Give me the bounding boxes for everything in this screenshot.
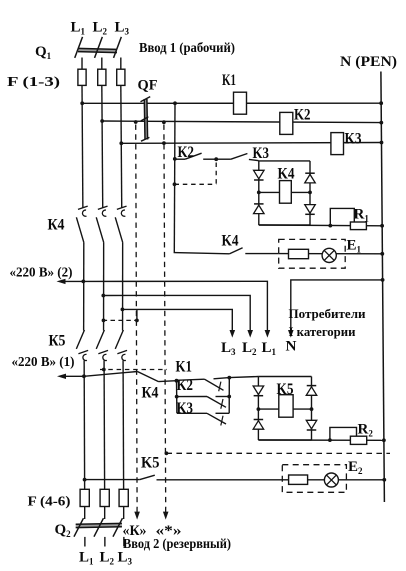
junction L1 220V1 <box>82 374 86 378</box>
svg-text:К4: К4 <box>48 217 65 234</box>
wire L1 to K5 contact <box>85 479 140 481</box>
contactor K5 pole 3 curl <box>117 350 127 353</box>
wire group left rail <box>176 381 178 414</box>
diode VD5 bridge2 left top <box>253 386 264 395</box>
svg-text:R2: R2 <box>358 422 374 439</box>
wire loop over R1 <box>330 208 354 225</box>
junction bus2 loop tap <box>328 438 332 442</box>
svg-text:L2: L2 <box>93 20 108 37</box>
wire through E2 box to N <box>282 479 384 481</box>
junction N wire1 <box>379 101 383 105</box>
wire phase 2 middle <box>103 242 105 330</box>
wire phase 1 lower <box>83 360 86 489</box>
relay coil K1 <box>234 92 247 114</box>
wire L1 feed to consumers <box>83 281 267 332</box>
arrow * <box>163 512 169 520</box>
contactor K4 pole 2 curl <box>98 206 108 209</box>
junction N feed <box>381 278 385 282</box>
wire bridge1 mid left to K4 coil <box>259 191 280 193</box>
diode VD8 bridge2 right bottom <box>306 420 317 429</box>
switch Q2 blade pole 3 <box>113 518 123 537</box>
arrow К <box>134 512 140 520</box>
junction bus2 at N <box>382 438 386 442</box>
wire bridge2 bottom <box>258 439 311 441</box>
wire bridge1 left branch <box>258 161 260 225</box>
wire bridge1 bottom <box>259 224 310 226</box>
junction L2 feed <box>101 294 105 298</box>
wire Q1 to fuse F2 <box>101 58 103 70</box>
dashed mechanical link K5 row <box>100 369 167 371</box>
wire bridge1 top <box>259 160 310 162</box>
diode VD6 bridge2 left bottom <box>254 419 264 421</box>
breaker QF bar <box>144 99 147 140</box>
contactor K5 pole 2 blade <box>96 330 104 349</box>
svg-text:K4: K4 <box>278 166 295 183</box>
contactor K5 pole 1 blade <box>76 330 84 349</box>
contactor K5 pole 1 curl <box>78 350 88 353</box>
contactor K4 pole 2 blade <box>96 217 103 242</box>
junction E2 line at N <box>382 478 386 482</box>
junction bridge1 right mid <box>308 191 312 195</box>
fuse F3 <box>117 69 125 85</box>
fuse F2 <box>98 69 106 85</box>
svg-text:Ввод 2 (резервный): Ввод 2 (резервный) <box>123 536 231 551</box>
junction N wire2 <box>379 121 383 125</box>
wire fuse F3 down <box>120 85 123 207</box>
svg-text:K1: K1 <box>222 72 236 89</box>
junction right rail top <box>227 376 231 380</box>
resistor R2 <box>350 436 366 444</box>
wire fuse F5 to Q2 <box>104 507 106 520</box>
wire N (PEN) vertical <box>381 72 385 503</box>
switch Q1 blade pole 2 <box>95 37 103 58</box>
svg-text:L2: L2 <box>100 550 115 567</box>
lamp E1 <box>322 248 336 262</box>
junction L2 wire2 <box>100 119 104 123</box>
svg-text:N (PEN): N (PEN) <box>340 54 397 70</box>
dashed mechanical link from K2-K3 node <box>215 163 217 185</box>
svg-text:L3: L3 <box>115 20 130 37</box>
svg-text:K1: K1 <box>176 359 193 376</box>
svg-text:K2: K2 <box>177 377 194 394</box>
svg-text:K2: K2 <box>178 144 195 161</box>
wire N feed to consumers <box>291 280 383 332</box>
fuse F4 <box>80 489 89 506</box>
resistor in E2 box <box>289 475 308 484</box>
contact K3 (NC) branch <box>177 412 207 414</box>
junction rail wire1 <box>173 101 177 105</box>
output «220 В» (2) arrow <box>57 279 66 284</box>
junction L1 wire1 <box>80 101 84 105</box>
wire Q2 pole 2 stub <box>104 537 106 547</box>
arrow L1 consumers <box>265 330 271 338</box>
arrow L3 consumers <box>230 330 236 338</box>
svg-text:«220 В» (1): «220 В» (1) <box>12 354 75 369</box>
svg-text:F (4-6): F (4-6) <box>28 494 71 509</box>
contactor K5 pole 3 blade <box>115 330 123 349</box>
wire 2 L2 to N with K2 coil <box>102 121 381 123</box>
junction left rail K2 branch <box>175 395 179 399</box>
diode VD4 bridge1 right bottom <box>305 205 316 214</box>
relay coil K5 <box>279 395 293 418</box>
junction stub L2 <box>102 319 106 323</box>
junction dashed link at L2 lower <box>102 368 106 372</box>
wire bus2 bridge2 to N <box>258 439 384 441</box>
svg-text:K5: K5 <box>277 381 294 398</box>
svg-text:I категории: I категории <box>289 324 356 339</box>
svg-text:L1: L1 <box>262 340 277 357</box>
junction group input <box>175 379 179 383</box>
wire K4 coil to bridge1 mid right <box>291 191 310 193</box>
wire phase 2 lower <box>103 360 106 489</box>
wire fuse F2 down <box>101 85 104 207</box>
output «220 В» (1) arrow <box>57 374 66 379</box>
svg-text:E1: E1 <box>347 238 362 255</box>
svg-text:L3: L3 <box>221 340 236 357</box>
junction rail K2 contact line <box>173 157 177 161</box>
svg-text:L1: L1 <box>71 20 86 37</box>
dashed mechanical link * vertical <box>164 125 166 509</box>
wire 3 L3 to N with K3 coil <box>121 142 381 145</box>
wire fuse F1 down <box>81 85 84 207</box>
svg-text:QF: QF <box>138 78 158 94</box>
svg-text:K3: K3 <box>177 400 194 417</box>
diode VD2 bridge1 left bottom <box>254 203 263 205</box>
contact K4 (NO) lamp circuit <box>230 248 243 254</box>
wire bridge2 right branch <box>311 377 313 441</box>
diode VD1 bridge1 left top <box>254 170 264 179</box>
wire through E1 box to N <box>279 253 383 255</box>
svg-text:K3: K3 <box>253 145 270 162</box>
contact K2 (NC) branch <box>177 396 207 398</box>
fuse F6 <box>119 489 128 506</box>
switch Q1 blade pole 3 <box>114 37 122 58</box>
junction L1 220V2 <box>81 280 85 284</box>
wire phase 1 middle <box>83 242 85 330</box>
wire L2 feed to consumers <box>103 295 250 332</box>
svg-text:К5: К5 <box>49 333 66 350</box>
dashed mechanical link lower right <box>166 452 390 454</box>
junction bus1 loop tap <box>328 224 332 228</box>
diode VD7 bridge2 right top <box>307 385 317 387</box>
resistor R1 <box>350 222 366 230</box>
resistor in E1 box <box>289 249 309 258</box>
switch Q2 bar <box>76 523 122 527</box>
switch Q1 blade pole 1 <box>75 37 83 58</box>
fuse F1 <box>78 69 86 85</box>
junction bridge2 right mid <box>310 407 314 411</box>
junction L3 feed <box>121 308 125 312</box>
wire 1 L1 to N with K1 coil <box>82 102 381 104</box>
svg-text:Q2: Q2 <box>55 522 72 539</box>
lamp E2 <box>324 473 338 487</box>
wire Q1 to fuse F1 <box>81 58 83 70</box>
contactor K4 pole 1 blade <box>76 217 83 242</box>
breaker QF pole 1 tick <box>141 97 151 102</box>
junction bus1 at N <box>380 224 384 228</box>
svg-text:N: N <box>286 339 297 355</box>
indicator box E1 dashed <box>279 239 346 268</box>
stub link horizontal to L2 <box>103 319 137 321</box>
stub link L3 feed down <box>136 309 138 320</box>
svg-text:K2: K2 <box>294 107 311 124</box>
relay coil K2 <box>280 112 293 134</box>
junction N wire3 <box>380 141 384 145</box>
wire fuse F4 to Q2 <box>84 507 86 520</box>
dashed mechanical link К vertical <box>136 125 137 509</box>
switch Q2 blade pole 2 <box>94 518 104 537</box>
svg-text:K3: K3 <box>345 131 362 148</box>
wire group output to bridge2 <box>229 377 258 378</box>
junction E1 line at N <box>380 252 384 256</box>
svg-text:«220 В» (2): «220 В» (2) <box>10 265 73 280</box>
wire bus1 bridge1 to N <box>259 224 382 227</box>
svg-text:K4: K4 <box>222 233 239 250</box>
wire fuse F6 to Q2 <box>123 507 125 520</box>
arrow L2 consumers <box>247 330 253 338</box>
wire Q2 pole 3 stub <box>123 537 125 547</box>
contact K1 (NC) branch <box>177 379 205 380</box>
contactor K5 pole 2 curl <box>98 350 108 353</box>
junction L1 E2 line <box>83 478 87 482</box>
junction bridge1 left mid <box>257 191 261 195</box>
junction L3 wire3 <box>119 141 123 145</box>
svg-text:F (1-3): F (1-3) <box>7 74 60 89</box>
junction dashed link * start on wire2 <box>162 120 166 124</box>
svg-text:L3: L3 <box>118 550 133 567</box>
wire group right rail <box>228 378 230 414</box>
wire phase 3 lower <box>122 360 125 489</box>
contactor K4 pole 1 curl <box>78 206 88 209</box>
wire bridge2 mid left to K5 coil <box>258 408 278 410</box>
breaker QF pole 2 tick <box>141 117 149 121</box>
diode VD3 bridge1 right top <box>305 172 315 174</box>
wire control rail vertical <box>173 103 176 252</box>
svg-text:L1: L1 <box>79 550 94 567</box>
fuse F5 <box>100 489 109 506</box>
wire phase 3 middle <box>122 242 124 330</box>
junction stub corner <box>135 319 139 323</box>
junction dashed link on * line <box>165 451 169 455</box>
contact K5 (NO) lamp circuit <box>140 475 155 479</box>
contactor K4 pole 3 blade <box>115 217 122 242</box>
arrow N consumers <box>288 330 294 338</box>
svg-text:Q1: Q1 <box>35 44 52 61</box>
indicator box E2 dashed <box>282 465 346 493</box>
svg-text:Потребители: Потребители <box>289 306 367 321</box>
wire bridge2 left branch <box>257 377 259 441</box>
contactor K4 pole 3 curl <box>117 206 127 209</box>
contact K3 (NO) in upper control <box>216 158 231 160</box>
relay coil K3 <box>331 133 344 155</box>
svg-text:E2: E2 <box>348 459 363 476</box>
junction K2-K3 <box>214 157 218 161</box>
wire K5 coil to bridge2 mid right <box>293 408 311 410</box>
wire L3 feed to consumers <box>122 309 232 332</box>
wire L1 to K4 aux contact <box>84 372 137 377</box>
breaker QF pole 3 tick <box>141 137 149 141</box>
svg-text:R1: R1 <box>354 207 370 224</box>
wire Q1 to fuse F3 <box>120 58 122 70</box>
switch Q2 blade pole 1 <box>74 518 84 537</box>
junction right rail K2 branch <box>227 395 231 399</box>
svg-text:Ввод 1 (рабочий): Ввод 1 (рабочий) <box>139 40 235 55</box>
svg-text:K5: K5 <box>141 455 160 472</box>
junction dashed link * on wire3 <box>162 141 166 145</box>
wire loop over R2 <box>330 427 357 440</box>
wire rail corner to K4 contact <box>174 252 229 254</box>
wire bridge2 top <box>258 376 311 378</box>
junction dashed link K start on wire2 <box>134 120 138 124</box>
contact K2 (NO) in upper control <box>175 158 185 160</box>
relay coil K4 <box>280 181 292 204</box>
junction bridge2 left mid <box>257 407 261 411</box>
contact K4 (NC) reserve control <box>137 372 158 382</box>
wire Q2 pole 1 stub <box>84 537 86 547</box>
svg-text:L2: L2 <box>242 340 257 357</box>
svg-text:К4: К4 <box>142 385 159 402</box>
wire bridge1 right branch <box>309 161 311 225</box>
switch Q1 bar <box>78 48 117 52</box>
junction rail dashed link <box>173 182 177 186</box>
